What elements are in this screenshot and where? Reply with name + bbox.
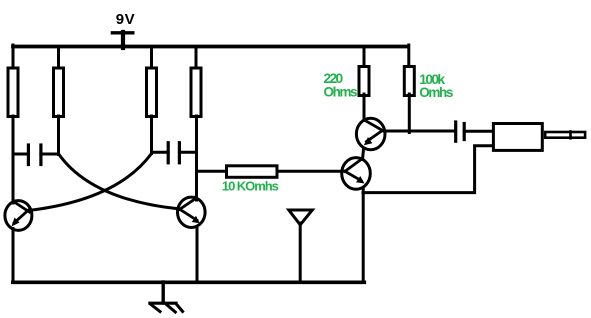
svg-text:Omhs: Omhs [419, 85, 453, 100]
wire stub to R4 [195, 47, 198, 68]
earphone plug shaft [545, 132, 585, 138]
antenna stem wire [299, 223, 302, 281]
battery positive terminal bar [112, 31, 132, 34]
wire R1 to Q1 collector [12, 116, 15, 203]
ground hatch 3 [176, 304, 182, 312]
transistor Q1 [5, 201, 32, 231]
capacitor C2 left lead [152, 151, 169, 154]
wire R5 to Q3 collector [363, 94, 366, 121]
resistor R1 [8, 68, 18, 117]
wire R3 down to C2 junction [150, 116, 153, 154]
transistor Q4 [342, 158, 371, 190]
resistor R4 [191, 68, 201, 117]
capacitor C3 left plate [454, 122, 457, 141]
battery stem wire [121, 32, 125, 48]
resistor R3 [147, 68, 157, 117]
capacitor C2 left plate [167, 143, 170, 163]
top power rail wire [13, 45, 407, 49]
capacitor C1 left lead [13, 153, 28, 156]
antenna triangle [289, 210, 313, 225]
bottom ground rail wire [13, 280, 365, 284]
resistor R6 100k [404, 67, 414, 96]
transistor Q2 [178, 197, 206, 227]
svg-text:9V: 9V [116, 11, 135, 28]
earphone plug body [493, 124, 542, 151]
capacitor C2 right lead [179, 151, 196, 154]
Q4 emitter wire [362, 188, 365, 282]
wire stub to R3 [150, 47, 153, 68]
capacitor C1 right plate [39, 145, 42, 165]
capacitor C3 right lead [464, 130, 494, 133]
wire stub to R6 [407, 45, 410, 67]
capacitor C2 right plate [178, 143, 181, 163]
wire Q2 collector to 10K resistor [197, 170, 227, 173]
ground hatch 2 [167, 305, 175, 312]
Q1 emitter wire [12, 229, 15, 282]
resistor R2 [54, 68, 64, 117]
ground bar [150, 302, 176, 305]
wire stub to R2 [57, 47, 60, 68]
svg-text:Ohms: Ohms [324, 84, 358, 99]
svg-text:10 KOmhs: 10 KOmhs [222, 178, 279, 193]
wire stub to R5 [363, 47, 366, 67]
cross-coupling wire from C2/R3 to Q1 base [33, 154, 152, 211]
wire R4 to Q2 collector [195, 116, 198, 200]
resistor R5 220 ohms [359, 67, 369, 96]
earphone plug tip divider [569, 132, 572, 139]
capacitor C1 left plate [27, 145, 30, 165]
plug sleeve return wire [363, 146, 493, 193]
wire R2 down to C1 junction [57, 116, 60, 155]
wire stub to R1 [12, 45, 15, 68]
transistor Q3 [356, 118, 385, 150]
ground stem [161, 282, 164, 303]
Q2 emitter wire [196, 227, 199, 281]
capacitor C3 right plate [463, 124, 466, 140]
wire Q3 emitter to Q4 collector [363, 148, 364, 159]
Q3 base wire to C3 [385, 130, 455, 133]
wire 10K to Q4 base [278, 170, 345, 173]
capacitor C1 right lead [41, 153, 59, 156]
cross-coupling wire from C1/R2 to Q2 base [59, 155, 178, 209]
ground hatch 1 [151, 305, 160, 312]
wire R6 down to Q3 base node [408, 94, 411, 133]
resistor R7 10 KOmhs [227, 166, 278, 178]
